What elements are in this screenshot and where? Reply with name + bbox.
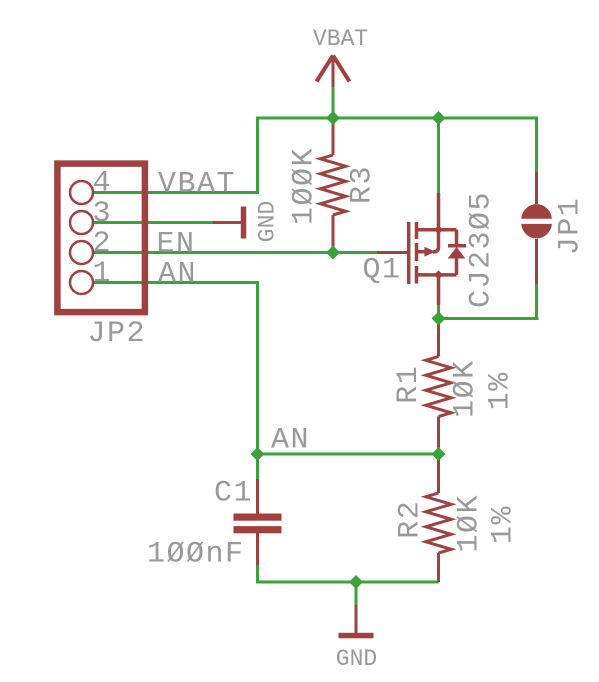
resistor R2 — [426, 454, 451, 582]
junction dot AN right — [432, 447, 446, 461]
svg-text:1ØØnF: 1ØØnF — [147, 538, 245, 572]
wire Q1 drain column green — [437, 118, 440, 193]
svg-text:GND: GND — [336, 646, 377, 672]
svg-text:JP1: JP1 — [554, 197, 588, 256]
connector JP1 (solder jumper) — [535, 172, 538, 204]
wire R2 bottom corner — [437, 578, 440, 582]
resistor R1 — [426, 319, 451, 448]
capacitor C1 — [256, 479, 259, 514]
junction dot VBAT/top rail — [326, 111, 340, 125]
svg-text:EN: EN — [157, 228, 196, 262]
transistor Q1 (P-MOSFET) — [377, 193, 466, 305]
JP2 pin 3 circle — [70, 211, 93, 234]
JP2 pin 2 circle — [70, 241, 93, 264]
wire riser pin4 to top rail — [256, 117, 259, 195]
wire source junction to JP1 column — [439, 317, 539, 320]
svg-text:Q1: Q1 — [363, 254, 402, 288]
svg-text:R3: R3 — [346, 165, 380, 204]
Q1 source arrow — [424, 247, 435, 257]
wire JP1 column lower — [535, 284, 538, 320]
JP2 pin 4 circle — [70, 181, 93, 204]
wire top rail — [256, 117, 538, 120]
svg-text:VBAT: VBAT — [313, 26, 368, 52]
svg-text:1ØØK: 1ØØK — [288, 147, 322, 225]
Q1 internal junction dots — [434, 225, 443, 234]
wire bottom rail — [256, 581, 439, 584]
wire JP1 column upper — [535, 117, 538, 173]
svg-text:GND: GND — [255, 201, 281, 242]
wire C1 top — [256, 454, 259, 479]
svg-text:VBAT: VBAT — [158, 168, 236, 202]
svg-text:C1: C1 — [214, 477, 253, 511]
junction dot R3 bottom/EN — [326, 246, 340, 260]
svg-text:1%: 1% — [487, 505, 521, 544]
wire AN row — [258, 453, 439, 456]
wire GND stem green — [355, 582, 358, 605]
ground symbol bottom — [355, 605, 358, 633]
wire Q1 source to junction — [437, 305, 440, 319]
resistor R3 — [320, 118, 345, 253]
svg-text:CJ23Ø5: CJ23Ø5 — [465, 191, 499, 308]
svg-text:1%: 1% — [484, 371, 518, 410]
svg-text:1: 1 — [93, 257, 113, 291]
svg-text:AN: AN — [271, 424, 310, 458]
svg-text:4: 4 — [93, 167, 113, 201]
junction dot Q1 drain/top rail — [432, 111, 446, 125]
svg-text:2: 2 — [93, 227, 113, 261]
svg-text:R2: R2 — [394, 500, 428, 539]
Q1 body diode triangle — [448, 247, 466, 259]
wire C1 bottom — [256, 565, 259, 584]
power symbol VBAT arrow — [317, 56, 350, 88]
wire AN column down — [256, 281, 259, 454]
svg-text:1ØK: 1ØK — [449, 359, 483, 418]
svg-text:3: 3 — [93, 197, 113, 231]
connector JP2 outline — [57, 164, 144, 313]
svg-text:AN: AN — [158, 258, 197, 292]
junction dot AN left — [251, 447, 265, 461]
wire R1 bottom to AN junction — [437, 446, 440, 454]
junction dot Q1 source — [432, 312, 446, 326]
ground symbol near JP2 (pin3) — [213, 221, 241, 224]
wire AN net pin1 — [94, 281, 258, 284]
wire VBAT symbol stem green — [332, 87, 335, 119]
svg-text:1ØK: 1ØK — [453, 494, 487, 553]
svg-text:JP2: JP2 — [88, 317, 147, 351]
wire EN net pin2 to gate — [94, 251, 377, 254]
wire pin3 to GND symbol — [94, 221, 213, 224]
svg-text:R1: R1 — [392, 365, 426, 404]
junction dot bottom rail / GND — [349, 575, 363, 589]
wire VBAT net: pin4 to riser — [94, 191, 258, 194]
JP2 pin 1 circle — [70, 271, 93, 294]
